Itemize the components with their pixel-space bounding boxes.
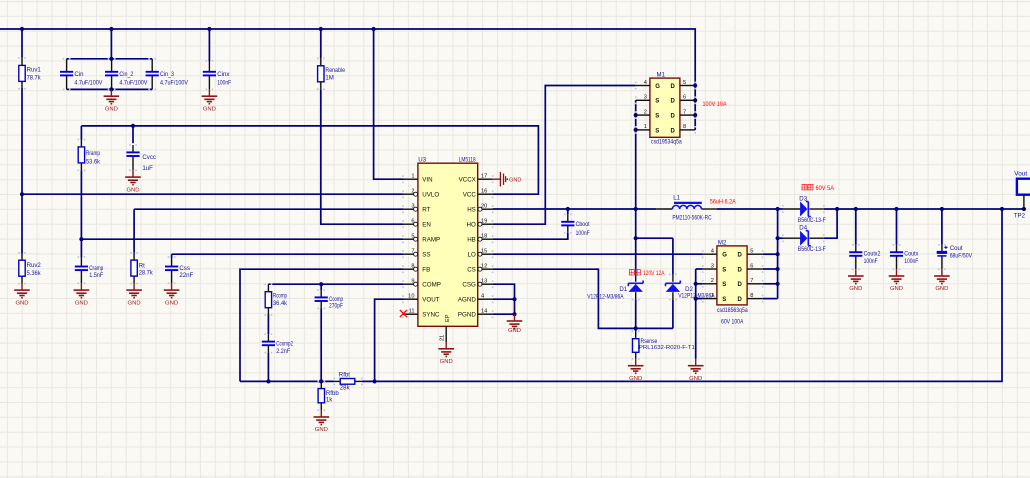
M1 pin 4 G xyxy=(636,85,650,87)
junction SW-M2D xyxy=(776,207,780,211)
svg-text:GND: GND xyxy=(75,300,88,306)
svg-text:VCCX: VCCX xyxy=(459,176,476,183)
diode D2 xyxy=(666,274,716,299)
M2 pin 4 G xyxy=(703,253,717,255)
wire D1 anode down xyxy=(635,300,637,332)
junction AGND join xyxy=(512,297,516,301)
wire HO to M1 gate xyxy=(493,86,636,225)
svg-text:14: 14 xyxy=(481,309,487,315)
svg-text:S: S xyxy=(722,267,726,273)
junction Cvcc-VCC xyxy=(131,124,135,128)
svg-text:6: 6 xyxy=(411,219,414,225)
svg-text:LO: LO xyxy=(468,251,476,258)
ground GND below Cinx xyxy=(202,89,218,112)
wire Renable to EN pin xyxy=(321,89,403,224)
svg-text:10: 10 xyxy=(408,294,414,300)
svg-text:4.7uF/100V: 4.7uF/100V xyxy=(119,79,148,86)
capacitor Cvcc xyxy=(126,145,156,172)
wire D4 branch xyxy=(778,237,783,239)
wire Cin bank drop xyxy=(110,29,112,59)
wire Coutx2 top xyxy=(855,209,857,245)
wire FB divider bottom left xyxy=(240,380,334,382)
svg-text:GND: GND xyxy=(890,286,903,292)
svg-text:1: 1 xyxy=(411,174,414,180)
M2 pin 6 D xyxy=(747,268,763,270)
svg-text:2: 2 xyxy=(644,109,647,115)
svg-text:9: 9 xyxy=(411,279,414,285)
svg-text:Vout: Vout xyxy=(1014,170,1027,177)
svg-text:4: 4 xyxy=(711,249,714,255)
wire Cboot bottom / HB xyxy=(493,233,568,239)
svg-text:Ruv2: Ruv2 xyxy=(27,262,42,269)
resistor Ruv2 xyxy=(19,253,42,284)
svg-text:20: 20 xyxy=(481,204,487,210)
svg-text:11: 11 xyxy=(409,309,415,315)
wire Cin bank top bus xyxy=(67,58,153,60)
svg-text:3: 3 xyxy=(711,263,714,269)
svg-text:GND: GND xyxy=(689,376,702,382)
wire VOUT pin to FB divider xyxy=(375,299,403,381)
svg-text:Cout: Cout xyxy=(950,245,963,252)
svg-text:2: 2 xyxy=(411,189,414,195)
junction SW-M1S xyxy=(634,207,638,211)
junction M2 S pin2 xyxy=(694,282,698,286)
svg-text:100nF: 100nF xyxy=(217,79,231,86)
pin snap markers xyxy=(18,57,946,411)
svg-text:D: D xyxy=(738,253,743,259)
pin 21 EP xyxy=(445,326,447,342)
svg-text:EN: EN xyxy=(422,221,431,228)
no-connect X on pin 11 SYNC xyxy=(400,310,407,317)
pin 17 VCCX xyxy=(478,178,493,180)
svg-text:Cboot: Cboot xyxy=(576,221,590,228)
wire FB divider bottom right to Vout xyxy=(362,209,1002,381)
op-amp U3 LM5118 controller xyxy=(403,157,493,342)
wire Cin bank bottom bus xyxy=(67,88,153,90)
wire Ccomp2 bottom xyxy=(267,353,269,382)
svg-text:Cin_2: Cin_2 xyxy=(119,71,134,78)
svg-text:FB: FB xyxy=(422,266,430,273)
svg-text:6: 6 xyxy=(750,263,753,269)
junction M1 S pin2 xyxy=(634,113,638,117)
capacitor Cin_2 xyxy=(105,59,148,90)
svg-text:4: 4 xyxy=(644,80,647,86)
wire M2 S pin stub 1 xyxy=(696,298,703,300)
wire output rail xyxy=(824,208,1026,210)
inductor L1 PM2110-560K-RC xyxy=(656,195,716,222)
svg-text:Rramp: Rramp xyxy=(86,150,100,157)
svg-text:PGND: PGND xyxy=(458,311,476,318)
wire M2 D stub 7 xyxy=(763,283,778,285)
svg-text:G: G xyxy=(655,84,660,90)
resistor Ruv1 xyxy=(19,58,42,89)
svg-text:HO: HO xyxy=(467,221,476,228)
wire COMP to pin9 xyxy=(268,283,403,285)
svg-text:D: D xyxy=(738,282,743,288)
svg-text:56uH 6.2A: 56uH 6.2A xyxy=(710,198,737,205)
resistor Rramp xyxy=(78,140,101,171)
svg-text:U3: U3 xyxy=(418,157,426,164)
wire D2 anode down xyxy=(672,300,674,329)
resistor Rt xyxy=(131,253,154,284)
svg-text:100nF: 100nF xyxy=(864,258,878,265)
svg-text:8: 8 xyxy=(411,264,414,270)
svg-text:GND: GND xyxy=(629,376,642,382)
svg-text:7: 7 xyxy=(683,109,686,115)
svg-text:6: 6 xyxy=(683,95,686,101)
svg-text:100nF: 100nF xyxy=(576,230,590,237)
wire Ruv1-Ruv2 link (UVLO node) xyxy=(21,88,23,253)
svg-text:2: 2 xyxy=(711,278,714,284)
junction M1 D pin7 xyxy=(693,113,697,117)
ground GND below Coutx2 xyxy=(848,269,864,292)
junction out-Coutx xyxy=(894,207,898,211)
junction rail-Cin xyxy=(109,27,113,31)
svg-text:Cinx: Cinx xyxy=(217,71,229,78)
wire Cvcc top xyxy=(132,126,134,143)
svg-text:G: G xyxy=(722,253,727,259)
svg-text:S: S xyxy=(655,99,659,105)
wire Rcomp-Ccomp2 link xyxy=(267,314,269,334)
pin 8 FB xyxy=(403,268,418,270)
svg-text:Coutx2: Coutx2 xyxy=(864,251,881,258)
svg-text:GND: GND xyxy=(315,427,328,433)
M1 pin 5 D xyxy=(680,85,695,87)
capacitor Cout xyxy=(937,245,973,269)
ground GND below Css xyxy=(164,283,180,306)
svg-text:12: 12 xyxy=(481,264,487,270)
svg-text:SYNC: SYNC xyxy=(422,311,440,318)
svg-text:7: 7 xyxy=(750,278,753,284)
wire SS to pin7 xyxy=(172,253,403,255)
wire VCC net xyxy=(81,126,538,194)
svg-text:4.7uF/100V: 4.7uF/100V xyxy=(160,79,189,86)
svg-text:Ruv1: Ruv1 xyxy=(27,67,42,74)
junction out-Cout xyxy=(940,207,944,211)
svg-text:1k: 1k xyxy=(326,397,333,404)
M2 pin 8 D xyxy=(747,298,763,300)
svg-text:Coutx: Coutx xyxy=(904,251,918,258)
svg-text:B560C-13-F: B560C-13-F xyxy=(798,217,826,224)
ground GND at EP xyxy=(438,342,454,365)
capacitor Ccomp xyxy=(315,290,344,310)
diode D4 xyxy=(783,225,826,254)
wire Rramp bottom to RAMP node xyxy=(80,170,82,257)
M2 pin 2 S xyxy=(703,283,717,285)
svg-text:22nF: 22nF xyxy=(179,272,193,279)
pin 10 VOUT xyxy=(403,298,418,300)
junction D4 branch xyxy=(776,236,780,240)
svg-text:GND: GND xyxy=(165,300,178,306)
svg-text:Ccomp2: Ccomp2 xyxy=(276,340,293,347)
wire RT to pin3 xyxy=(134,208,403,210)
junction M2 S pin1 xyxy=(694,297,698,301)
svg-text:COMP: COMP xyxy=(422,281,441,288)
junction PGND join xyxy=(512,312,516,316)
junction out-FB xyxy=(1000,207,1004,211)
svg-text:D1: D1 xyxy=(619,286,627,293)
svg-text:5.36k: 5.36k xyxy=(27,270,42,277)
junction M2 D pin6 xyxy=(776,267,780,271)
svg-text:PM2110-560K-RC: PM2110-560K-RC xyxy=(672,215,712,222)
svg-text:4: 4 xyxy=(481,294,484,300)
junction RAMP node xyxy=(79,237,83,241)
svg-text:17: 17 xyxy=(481,174,487,180)
svg-text:D3: D3 xyxy=(799,195,807,202)
ground GND at PGND/CSG/AGND xyxy=(507,314,523,334)
wire Cinx drop xyxy=(208,29,210,61)
wire Cboot top xyxy=(567,209,569,214)
ground GND below Cramp xyxy=(74,283,90,306)
svg-text:100V 10A: 100V 10A xyxy=(703,101,728,108)
junction Cin bus top xyxy=(109,57,113,61)
pin 11 SYNC xyxy=(403,313,418,315)
wire Renable top stub xyxy=(320,29,322,58)
junction CS-Rsense xyxy=(634,326,638,330)
ground GND below Rt xyxy=(126,283,142,306)
junction SW-Cboot xyxy=(566,207,570,211)
M1 pin 2 S xyxy=(636,114,650,116)
svg-text:D: D xyxy=(670,84,675,90)
wire M2 D stub 5 xyxy=(763,253,778,255)
svg-text:60V 5A: 60V 5A xyxy=(816,185,835,192)
capacitor Ccomp2 xyxy=(262,334,294,355)
svg-text:GND: GND xyxy=(126,187,139,193)
wire M2 D stub 6 xyxy=(763,268,778,270)
wire FB pin wire xyxy=(240,269,403,381)
svg-text:Cin_3: Cin_3 xyxy=(160,71,175,78)
svg-text:VOUT: VOUT xyxy=(422,296,439,303)
junction FB-Rfbb xyxy=(319,379,323,383)
svg-text:RT: RT xyxy=(422,206,430,213)
svg-text:Renable: Renable xyxy=(325,67,345,74)
svg-text:TP2: TP2 xyxy=(1014,212,1026,219)
test point TP2 lead xyxy=(1023,195,1025,209)
pin 19 HO xyxy=(478,223,493,225)
svg-text:csd18563q5a: csd18563q5a xyxy=(717,307,748,314)
svg-text:PRL1632-R020-F-T1: PRL1632-R020-F-T1 xyxy=(639,345,695,351)
junction FB-Ccomp2 xyxy=(266,379,270,383)
ground GND below Rfbb xyxy=(314,410,330,433)
annotation withstand 60V 5A xyxy=(802,185,835,193)
svg-text:GND: GND xyxy=(128,300,141,306)
ground GND below Rsense xyxy=(628,359,644,382)
pin 7 SS xyxy=(403,253,418,255)
pin 3 RT xyxy=(403,208,418,210)
wire RT node xyxy=(133,209,135,253)
wire CS sense xyxy=(493,269,673,328)
resistor Rcomp xyxy=(265,284,288,315)
resistor Renable xyxy=(318,58,346,89)
svg-text:D: D xyxy=(738,267,743,273)
svg-text:120V 12A: 120V 12A xyxy=(643,270,665,277)
svg-text:Rt: Rt xyxy=(139,263,145,270)
svg-text:D: D xyxy=(670,128,675,134)
junction out-D4 xyxy=(835,207,839,211)
M1 pin 1 S xyxy=(636,129,650,131)
svg-text:GND: GND xyxy=(440,359,453,365)
junction M1 S pin1 xyxy=(634,128,638,132)
svg-text:S: S xyxy=(655,128,659,134)
junction rail-Cinx xyxy=(207,27,211,31)
junction M2 D pin5 xyxy=(776,252,780,256)
resistor Rsense PRL1632-R020-F-T1 xyxy=(633,331,695,359)
M2 pin 7 D xyxy=(747,283,763,285)
junction rail-Ruv1 xyxy=(20,27,24,31)
port Vout xyxy=(1014,170,1030,194)
svg-text:GND: GND xyxy=(849,286,862,292)
M2 pin 1 S xyxy=(703,298,717,300)
svg-text:5: 5 xyxy=(411,234,414,240)
svg-text:36.4k: 36.4k xyxy=(273,300,288,307)
svg-text:HS: HS xyxy=(467,206,476,213)
junction Cin bus bottom xyxy=(109,87,113,91)
svg-text:csd19534q5a: csd19534q5a xyxy=(651,139,682,146)
pin 12 CS xyxy=(478,268,493,270)
pin 13 CSG xyxy=(478,283,493,285)
wire Ccomp top branch xyxy=(320,284,322,290)
diode D3 xyxy=(783,195,826,224)
svg-text:Cin: Cin xyxy=(74,71,83,78)
pin 4 AGND xyxy=(478,298,493,300)
svg-text:GND: GND xyxy=(509,177,521,183)
ground GND below Ruv2 xyxy=(14,283,30,306)
svg-text:18: 18 xyxy=(481,234,487,240)
svg-text:Rsense: Rsense xyxy=(641,338,658,345)
svg-text:D: D xyxy=(670,99,675,105)
svg-text:D: D xyxy=(670,114,675,120)
ground GND at VCCX pin17 (bar style) xyxy=(493,172,522,187)
svg-text:8: 8 xyxy=(683,124,686,130)
svg-text:100nF: 100nF xyxy=(904,258,918,265)
svg-text:28k: 28k xyxy=(340,385,351,392)
wire LO to M2 gate xyxy=(493,253,703,255)
svg-text:EP: EP xyxy=(445,314,451,322)
svg-text:D: D xyxy=(738,297,743,303)
svg-text:S: S xyxy=(722,297,726,303)
svg-text:15: 15 xyxy=(481,249,487,255)
capacitor Coutx xyxy=(890,245,919,269)
wire M2 source bus xyxy=(695,269,697,359)
M1 pin 6 D xyxy=(680,99,695,101)
wire D2 vertical xyxy=(672,238,674,274)
svg-text:AGND: AGND xyxy=(458,296,476,303)
ground GND below Cvcc xyxy=(125,170,141,193)
annotation withstand 120V 12A xyxy=(629,270,665,278)
pin 6 EN xyxy=(403,223,418,225)
capacitor Coutx2 xyxy=(849,245,881,269)
wire Ccomp bottom xyxy=(320,308,322,381)
wire Cout top xyxy=(941,209,943,245)
M2 pin 3 S xyxy=(703,268,717,270)
svg-text:4.7uF/100V: 4.7uF/100V xyxy=(74,79,103,86)
svg-text:1: 1 xyxy=(711,293,714,299)
wire D1-D2 top branch xyxy=(636,237,673,239)
svg-text:Cvcc: Cvcc xyxy=(142,154,156,161)
wire M2 drain bus xyxy=(777,209,779,299)
svg-text:HB: HB xyxy=(467,236,476,243)
svg-text:D4: D4 xyxy=(799,225,807,232)
M1 pin 7 D xyxy=(680,114,695,116)
M1 pin 3 S xyxy=(636,99,650,101)
svg-text:1.5nF: 1.5nF xyxy=(89,272,103,279)
svg-text:M2: M2 xyxy=(718,239,727,246)
capacitor Css xyxy=(165,257,194,283)
svg-text:L1: L1 xyxy=(673,195,680,202)
wire UVLO to pin2 xyxy=(22,193,403,195)
junction rail-Renable xyxy=(319,27,323,31)
junction out-Coutx2 xyxy=(854,207,858,211)
wire M2 S pin stub 3 xyxy=(696,268,703,270)
wire VIN to pin1 xyxy=(374,29,403,179)
pin 9 COMP xyxy=(403,283,418,285)
wire D4 cathode return xyxy=(824,209,837,238)
svg-text:Rfbt: Rfbt xyxy=(339,372,350,379)
capacitor Cboot xyxy=(561,214,590,237)
wire Rramp top xyxy=(80,126,82,140)
resistor Rfbb xyxy=(318,381,339,410)
svg-text:VIN: VIN xyxy=(422,176,432,183)
svg-text:1M: 1M xyxy=(325,75,333,82)
pin 14 PGND xyxy=(478,313,493,315)
wire VIN top rail xyxy=(0,29,695,130)
svg-text:19: 19 xyxy=(481,219,487,225)
pin 2 UVLO xyxy=(403,193,418,195)
junction M1 D pin5 xyxy=(693,83,697,87)
wire M2 D stub 8 xyxy=(763,298,778,300)
svg-text:5: 5 xyxy=(750,249,753,255)
transistor M2 csd18563q5a xyxy=(703,239,763,325)
svg-text:8: 8 xyxy=(750,293,753,299)
M2 pin 5 D xyxy=(747,253,763,255)
svg-text:GND: GND xyxy=(15,300,28,306)
svg-text:60V 100A: 60V 100A xyxy=(721,318,744,325)
svg-text:B560C-13-F: B560C-13-F xyxy=(798,246,826,253)
svg-text:GND: GND xyxy=(935,286,948,292)
svg-text:13: 13 xyxy=(481,279,487,285)
svg-text:53.6k: 53.6k xyxy=(86,159,101,166)
capacitor Cramp xyxy=(75,257,104,283)
wire CSG xyxy=(493,284,515,314)
svg-text:SS: SS xyxy=(422,251,430,258)
svg-text:RAMP: RAMP xyxy=(422,236,440,243)
wire HS / SW rail left xyxy=(493,208,657,210)
svg-text:1uF: 1uF xyxy=(142,165,153,172)
svg-text:1: 1 xyxy=(644,124,647,130)
ground GND below Coutx xyxy=(889,269,905,292)
svg-text:28.7k: 28.7k xyxy=(139,270,154,277)
svg-text:5: 5 xyxy=(683,80,686,86)
ground GND below M2 sources xyxy=(688,359,704,382)
svg-text:CSG: CSG xyxy=(462,281,476,288)
wire AGND xyxy=(493,298,515,300)
svg-text:LM5118: LM5118 xyxy=(459,157,476,164)
svg-text:GND: GND xyxy=(105,106,118,112)
pin 18 HB xyxy=(478,238,493,240)
junction COMP-Ccomp xyxy=(319,282,323,286)
wire Css top xyxy=(171,254,173,257)
pin 16 VCC xyxy=(478,193,493,195)
svg-text:3: 3 xyxy=(644,95,647,101)
svg-text:2.2nF: 2.2nF xyxy=(276,348,290,355)
wire Ruv1 top stub xyxy=(21,29,23,58)
svg-text:68uF/50V: 68uF/50V xyxy=(950,252,973,259)
wire M1 source vertical to SW xyxy=(635,100,637,274)
svg-text:3: 3 xyxy=(411,204,414,210)
capacitor Cinx xyxy=(203,61,232,90)
transistor M1 csd19534q5a xyxy=(636,72,696,146)
svg-text:270pF: 270pF xyxy=(329,303,343,310)
